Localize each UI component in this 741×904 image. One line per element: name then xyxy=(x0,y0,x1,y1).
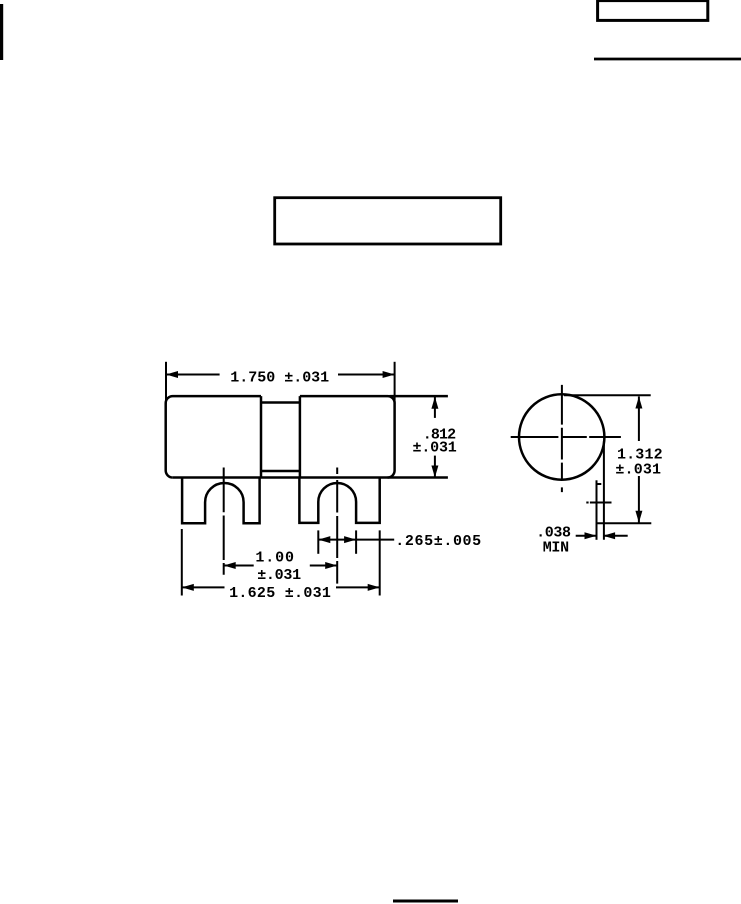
svg-text:±.031: ±.031 xyxy=(257,567,301,584)
svg-text:.265±.005: .265±.005 xyxy=(395,533,481,550)
svg-text:1.750 ±.031: 1.750 ±.031 xyxy=(230,369,329,386)
svg-text:±.031: ±.031 xyxy=(615,461,661,478)
svg-text:1.625 ±.031: 1.625 ±.031 xyxy=(229,585,331,602)
svg-text:1.00: 1.00 xyxy=(255,550,294,567)
svg-text:MIN: MIN xyxy=(543,540,569,557)
svg-text:±.031: ±.031 xyxy=(413,440,457,457)
